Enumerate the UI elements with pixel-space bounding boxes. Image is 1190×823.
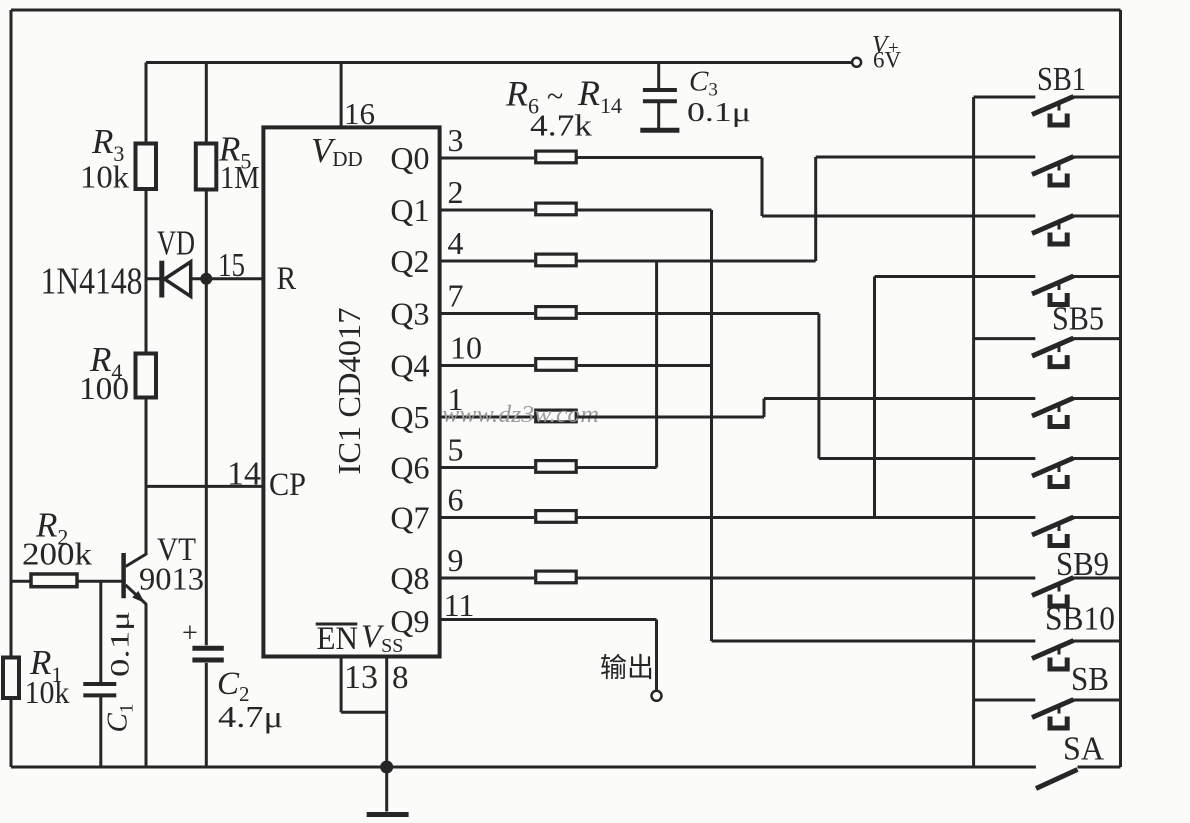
svg-text:14: 14: [227, 456, 261, 493]
svg-text:Q4: Q4: [390, 348, 429, 384]
svg-text:Q6: Q6: [390, 450, 429, 486]
svg-text:8: 8: [392, 660, 409, 696]
svg-text:6V: 6V: [873, 48, 902, 73]
svg-text:Q2: Q2: [390, 243, 429, 279]
svg-text:4.7μ: 4.7μ: [218, 699, 283, 734]
svg-text:Q9: Q9: [390, 603, 429, 639]
svg-text:www.dz3w.com: www.dz3w.com: [442, 402, 599, 428]
svg-text:7: 7: [448, 278, 464, 314]
svg-text:SB9: SB9: [1056, 546, 1109, 583]
svg-text:IC1 CD4017: IC1 CD4017: [331, 308, 367, 475]
svg-text:EN: EN: [317, 621, 359, 657]
svg-text:2: 2: [448, 174, 464, 210]
svg-text:4.7k: 4.7k: [530, 108, 593, 143]
svg-text:10k: 10k: [25, 674, 70, 710]
svg-text:13: 13: [344, 659, 378, 696]
svg-text:0.1μ: 0.1μ: [687, 97, 751, 127]
svg-text:Q0: Q0: [390, 140, 429, 176]
svg-text:Q3: Q3: [390, 296, 429, 332]
svg-text:Q8: Q8: [390, 560, 429, 596]
svg-text:VD: VD: [157, 223, 195, 262]
svg-text:SB10: SB10: [1045, 601, 1115, 638]
svg-text:输出: 输出: [600, 653, 654, 683]
svg-text:0.1μ: 0.1μ: [106, 611, 135, 677]
svg-text:9013: 9013: [139, 561, 204, 597]
svg-text:SB: SB: [1071, 661, 1109, 698]
svg-text:1M: 1M: [220, 159, 260, 195]
svg-text:4: 4: [448, 225, 464, 261]
svg-text:15: 15: [218, 247, 245, 284]
svg-text:10k: 10k: [80, 159, 129, 195]
svg-text:6: 6: [448, 482, 464, 518]
svg-text:11: 11: [444, 587, 475, 623]
svg-text:SB1: SB1: [1037, 61, 1086, 98]
svg-text:1N4148: 1N4148: [41, 261, 143, 303]
svg-text:Q5: Q5: [390, 399, 429, 435]
svg-text:10: 10: [450, 330, 482, 366]
svg-text:+: +: [182, 618, 198, 649]
svg-text:SB5: SB5: [1052, 301, 1104, 338]
svg-text:R: R: [277, 261, 297, 297]
svg-text:Q7: Q7: [390, 500, 429, 536]
svg-text:100: 100: [79, 370, 129, 406]
svg-text:5: 5: [448, 432, 464, 468]
svg-text:CP: CP: [269, 467, 306, 503]
svg-text:SA: SA: [1063, 731, 1104, 768]
svg-text:9: 9: [448, 542, 464, 578]
svg-text:16: 16: [344, 96, 375, 131]
svg-text:Q1: Q1: [390, 192, 429, 228]
svg-text:200k: 200k: [22, 536, 92, 572]
svg-text:3: 3: [448, 122, 464, 158]
